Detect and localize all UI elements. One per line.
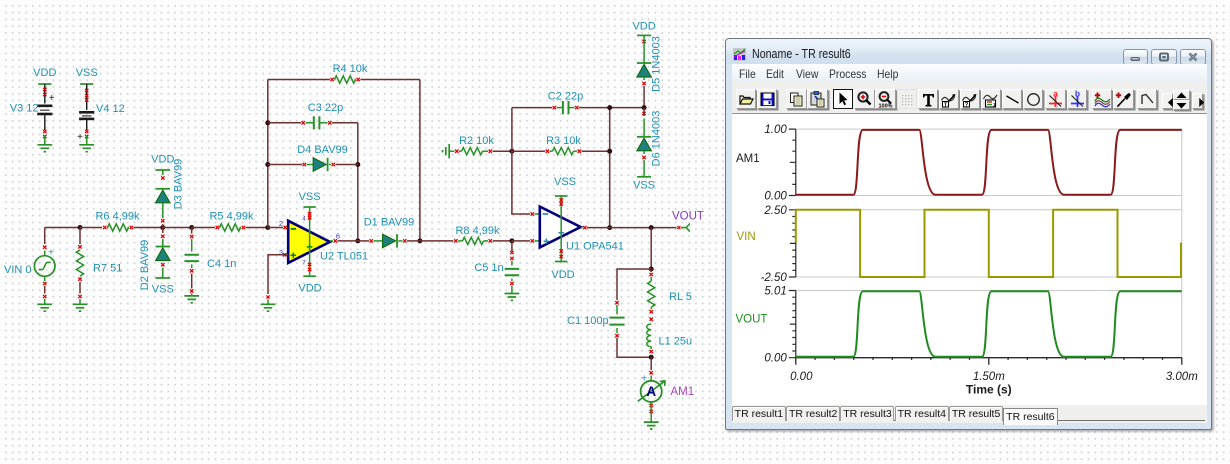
svg-text:VSS: VSS	[76, 67, 98, 79]
svg-text:D6 1N4003: D6 1N4003	[651, 111, 663, 167]
svg-text:A: A	[646, 384, 656, 399]
svg-text:?: ?	[965, 103, 969, 109]
svg-text:VSS: VSS	[299, 191, 321, 203]
svg-text:C2 22p: C2 22p	[548, 91, 583, 103]
svg-text:R8 4,99k: R8 4,99k	[455, 225, 500, 237]
svg-text:0.00: 0.00	[790, 371, 813, 383]
svg-text:R7 51: R7 51	[93, 263, 122, 275]
svg-text:U1 OPA541: U1 OPA541	[566, 241, 624, 253]
svg-text:a: a	[1054, 90, 1059, 99]
svg-text:VOUT: VOUT	[736, 314, 768, 326]
svg-text:z: z	[993, 102, 997, 109]
svg-text:VIN 0: VIN 0	[4, 264, 32, 276]
svg-text:AM1: AM1	[736, 153, 760, 165]
svg-text:1.00: 1.00	[765, 124, 788, 136]
svg-text:VDD: VDD	[33, 67, 56, 79]
svg-text:VDD: VDD	[632, 21, 655, 33]
svg-text:VDD: VDD	[551, 269, 574, 281]
svg-text:0.00: 0.00	[765, 191, 788, 203]
svg-text:0.00: 0.00	[765, 353, 788, 365]
svg-text:2: 2	[279, 219, 283, 228]
svg-text:5.01: 5.01	[765, 286, 787, 298]
svg-text:100%: 100%	[879, 104, 893, 110]
svg-text:RL 5: RL 5	[669, 291, 692, 303]
svg-text:2.50: 2.50	[764, 205, 788, 217]
svg-text:+: +	[641, 374, 647, 385]
svg-text:-2.50: -2.50	[761, 272, 788, 284]
svg-text:C5 1n: C5 1n	[474, 262, 503, 274]
svg-text:+: +	[77, 132, 83, 143]
svg-text:C1 100p: C1 100p	[567, 315, 609, 327]
svg-text:3: 3	[279, 248, 283, 257]
svg-text:+: +	[48, 248, 54, 259]
svg-text:D4 BAV99: D4 BAV99	[297, 144, 348, 156]
svg-text:VSS: VSS	[633, 180, 655, 192]
svg-text:L1 25u: L1 25u	[659, 336, 693, 348]
svg-text:VIN: VIN	[737, 231, 756, 243]
svg-text:V3 12: V3 12	[10, 103, 39, 115]
svg-text:D2 BAV99: D2 BAV99	[139, 240, 151, 291]
svg-text:C4 1n: C4 1n	[207, 258, 236, 270]
svg-text:C3 22p: C3 22p	[308, 102, 343, 114]
svg-text:VSS: VSS	[152, 284, 174, 296]
svg-text:4: 4	[302, 217, 306, 223]
svg-text:+: +	[49, 93, 55, 104]
svg-text:Time (s): Time (s)	[966, 383, 1012, 397]
svg-text:R2 10k: R2 10k	[459, 135, 494, 147]
svg-text:b: b	[1075, 90, 1080, 99]
svg-text:VDD: VDD	[151, 154, 174, 166]
svg-text:VDD: VDD	[298, 283, 321, 295]
svg-text:R5 4,99k: R5 4,99k	[209, 211, 254, 223]
svg-text:AM1: AM1	[671, 386, 695, 398]
svg-text:3.00m: 3.00m	[1166, 371, 1198, 383]
svg-text:V4 12: V4 12	[96, 103, 125, 115]
svg-text:VOUT: VOUT	[672, 211, 704, 223]
svg-text:D1 BAV99: D1 BAV99	[364, 217, 415, 229]
svg-text:7: 7	[302, 261, 306, 267]
svg-text:R4 10k: R4 10k	[333, 63, 368, 75]
svg-text:R6 4,99k: R6 4,99k	[95, 211, 140, 223]
svg-text:R3 10k: R3 10k	[546, 135, 581, 147]
svg-text:VSS: VSS	[554, 176, 576, 188]
svg-text:U2 TL051: U2 TL051	[320, 251, 368, 263]
svg-text:D3 BAV99: D3 BAV99	[173, 159, 185, 210]
svg-text:D5 1N4003: D5 1N4003	[651, 36, 663, 92]
svg-text:1.50m: 1.50m	[973, 371, 1005, 383]
